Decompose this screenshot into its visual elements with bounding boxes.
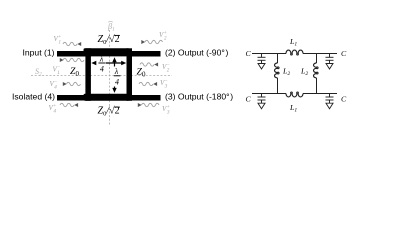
wave V1+ incident port 1 bbox=[63, 42, 77, 45]
dimension arrow vertical lambda/4 bbox=[112, 57, 116, 93]
wave V4+ port 4 lower bbox=[60, 103, 74, 106]
wave V2+ incident port 2 bbox=[141, 40, 145, 44]
wire right vertical branch upper bbox=[316, 54, 318, 64]
wave V2- reflected port 2 bbox=[140, 63, 154, 66]
wire bottom rail right segment bbox=[303, 93, 337, 95]
svg-text:λ: λ bbox=[114, 67, 119, 76]
wave V3+ port 3 lower bbox=[138, 103, 142, 107]
wave V3- port 3 upper bbox=[139, 82, 153, 85]
wire top rail right segment bbox=[303, 53, 337, 55]
svg-text:Input (1): Input (1) bbox=[22, 47, 54, 57]
symmetry axis horizontal dashed line bbox=[31, 75, 172, 77]
svg-text:4: 4 bbox=[115, 78, 119, 87]
svg-text:4: 4 bbox=[100, 65, 104, 74]
svg-text:β1: β1 bbox=[107, 22, 115, 33]
svg-text:V+1: V+1 bbox=[54, 35, 62, 45]
inductor L1 top bbox=[286, 50, 303, 55]
left shunt line Z0 bbox=[85, 48, 91, 101]
svg-text:V−1: V−1 bbox=[53, 66, 61, 76]
ground bottom-left bbox=[258, 103, 265, 109]
svg-text:C: C bbox=[341, 95, 347, 104]
ground top-left bbox=[258, 64, 265, 70]
port 4 feed line bbox=[57, 95, 89, 101]
inductor L2 right bbox=[314, 63, 319, 78]
svg-text:S2: S2 bbox=[35, 67, 42, 78]
symmetry axis vertical dashed line bbox=[109, 30, 111, 126]
right shunt line Z0 bbox=[127, 48, 133, 101]
wire bottom rail left segment bbox=[252, 93, 286, 95]
svg-text:L2: L2 bbox=[300, 67, 308, 77]
port 3 feed line bbox=[129, 95, 161, 101]
wire top rail left segment bbox=[252, 53, 286, 55]
capacitor C bottom-right bbox=[326, 94, 334, 104]
svg-text:C: C bbox=[341, 49, 347, 58]
capacitor C top-left bbox=[258, 54, 266, 64]
svg-text:(3) Output (-180° ): (3) Output (-180° ) bbox=[165, 92, 233, 102]
wire left vertical branch upper bbox=[277, 54, 279, 64]
label lambda/4 (vertical) bbox=[114, 67, 121, 87]
ground top-right bbox=[326, 64, 333, 70]
label lambda/4 (horizontal) bbox=[98, 55, 105, 74]
svg-text:λ: λ bbox=[99, 55, 104, 64]
svg-text:V−2: V−2 bbox=[162, 63, 170, 73]
inductor L1 bottom bbox=[286, 92, 303, 97]
wave V4- port 4 upper bbox=[63, 82, 67, 86]
svg-text:C: C bbox=[246, 49, 252, 58]
svg-text:V−3: V−3 bbox=[160, 79, 168, 89]
svg-text:V+2: V+2 bbox=[159, 31, 167, 41]
capacitor C bottom-left bbox=[258, 94, 266, 104]
port 2 feed line bbox=[129, 51, 161, 57]
svg-text:Z0: Z0 bbox=[137, 67, 146, 79]
wire left vertical branch lower bbox=[277, 78, 279, 94]
inductor L2 left bbox=[275, 63, 280, 78]
ground bottom-right bbox=[326, 103, 333, 109]
svg-text:Isolated (4): Isolated (4) bbox=[12, 92, 55, 102]
wave V1- reflected port 1 bbox=[60, 58, 64, 62]
svg-text:L1: L1 bbox=[289, 103, 297, 113]
top branch line Z0/sqrt2 bbox=[84, 48, 130, 56]
bottom branch line Z0/sqrt2 bbox=[84, 94, 130, 101]
capacitor C top-right bbox=[326, 54, 334, 64]
svg-text:C: C bbox=[246, 95, 252, 104]
wire right vertical branch lower bbox=[316, 78, 318, 94]
dimension arrow horizontal lambda/4 bbox=[91, 61, 126, 65]
svg-text:V−4: V−4 bbox=[50, 80, 58, 90]
svg-text:L2: L2 bbox=[282, 67, 290, 77]
svg-text:V+3: V+3 bbox=[162, 105, 170, 115]
svg-text:Z0: Z0 bbox=[70, 66, 79, 78]
port 1 feed line bbox=[57, 51, 89, 57]
svg-text:(2) Output (-90° ): (2) Output (-90° ) bbox=[165, 47, 229, 57]
svg-text:L1: L1 bbox=[289, 37, 297, 47]
svg-text:V+4: V+4 bbox=[49, 104, 57, 114]
